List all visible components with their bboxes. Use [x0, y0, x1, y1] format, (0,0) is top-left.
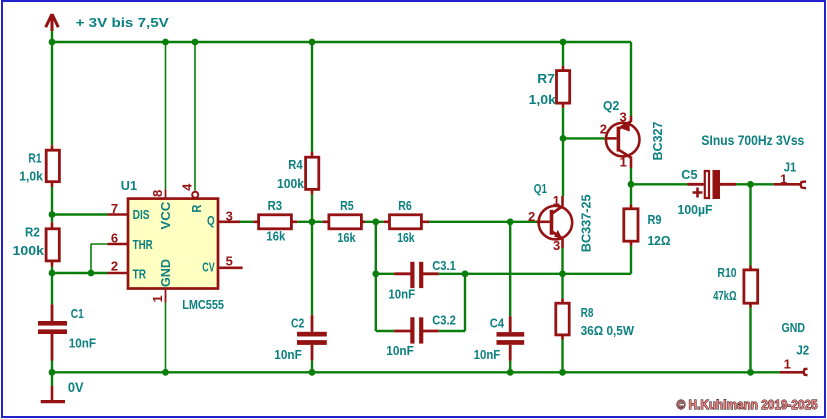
svg-text:8: 8 [150, 190, 165, 197]
svg-text:C5: C5 [681, 167, 697, 182]
svg-text:3: 3 [620, 109, 627, 124]
wire C3.1 left [376, 273, 394, 275]
wire R9 bottom [630, 246, 632, 274]
svg-text:1: 1 [150, 295, 165, 302]
wire R5R6 junction down [375, 222, 377, 331]
svg-text:DIS: DIS [133, 207, 150, 222]
svg-text:R8: R8 [581, 305, 594, 320]
node C3 right [462, 270, 469, 277]
collector pin [561, 196, 564, 206]
wire C2 to bottom rail [311, 360, 313, 372]
svg-text:16k: 16k [266, 228, 286, 243]
svg-text:VCC: VCC [158, 201, 173, 230]
svg-text:Q2: Q2 [603, 98, 619, 113]
svg-text:4: 4 [180, 183, 195, 191]
wire R10 bottom [749, 308, 751, 373]
pin 6 THR stub [108, 243, 129, 246]
wire GND pin column [165, 303, 167, 373]
svg-text:R10: R10 [717, 265, 736, 280]
svg-text:1,0k: 1,0k [529, 92, 557, 107]
svg-text:J2: J2 [796, 343, 809, 358]
node top rail R7 [560, 39, 567, 46]
svg-text:10nF: 10nF [474, 347, 501, 362]
node R3 R4 junction [309, 218, 316, 225]
pin 1 GND stub [165, 289, 167, 303]
resistor R1 [19, 145, 59, 187]
node rail U1 gnd [162, 369, 169, 376]
pin 4 R inverted stub [192, 192, 198, 198]
resistor R8 [556, 299, 635, 340]
resistor R5 [323, 198, 365, 245]
node DIS [49, 211, 56, 218]
wire C4 to bottom rail [509, 361, 511, 373]
plus sign [693, 188, 703, 198]
svg-text:2: 2 [111, 259, 118, 274]
pin 7 DIS stub [108, 213, 129, 216]
transistor Q1 BC337-25 [528, 181, 593, 253]
svg-text:TR: TR [133, 267, 147, 282]
node top rail R4 [309, 39, 316, 46]
emitter arrow [554, 230, 562, 239]
capacitor C1 [38, 304, 96, 360]
node TR left [49, 270, 56, 277]
wire GND stub below rail [51, 372, 53, 386]
svg-text:0V: 0V [68, 379, 84, 395]
svg-text:+ 3V bis 7,5V: + 3V bis 7,5V [76, 15, 170, 30]
resistor R10 [713, 265, 758, 308]
svg-text:10nF: 10nF [388, 287, 415, 302]
wire Q2 emitter [630, 168, 632, 184]
base stub [605, 137, 617, 140]
wire C3.2 left [376, 330, 394, 332]
wire bottom rail [52, 371, 780, 373]
svg-text:R1: R1 [28, 151, 41, 166]
svg-text:3: 3 [226, 208, 233, 223]
svg-text:THR: THR [133, 237, 154, 252]
svg-text:1: 1 [553, 193, 560, 208]
svg-text:R7: R7 [537, 71, 555, 86]
svg-text:R5: R5 [340, 198, 354, 213]
wire R10 top [749, 184, 751, 265]
capacitor C5 polarized [678, 167, 737, 217]
svg-text:47kΩ: 47kΩ [713, 288, 737, 303]
wire Q1 emitter [561, 248, 563, 274]
svg-text:100µF: 100µF [678, 202, 713, 217]
svg-text:10nF: 10nF [69, 335, 96, 350]
wire Q2 base row [563, 137, 605, 139]
ground symbol 0V [41, 386, 65, 402]
svg-text:2: 2 [528, 209, 535, 224]
svg-text:R3: R3 [268, 198, 283, 213]
capacitor C4 [474, 316, 525, 363]
svg-text:1: 1 [620, 155, 627, 170]
svg-text:LMC555: LMC555 [182, 297, 224, 312]
wire R2 to C1/TR [51, 267, 53, 305]
resistor R2 [13, 222, 60, 266]
wire C1 to bottom rail [51, 361, 53, 373]
wire top rail [52, 41, 631, 43]
svg-text:100k: 100k [277, 176, 305, 191]
wire THR row [91, 243, 108, 245]
pin 5 CV stub [219, 266, 243, 269]
svg-text:10nF: 10nF [274, 347, 302, 362]
resistor R9 [624, 205, 671, 249]
wire R7 top [562, 42, 564, 66]
wire R7 bottom / Q1 collector [562, 108, 564, 196]
svg-text:1,0k: 1,0k [19, 168, 43, 183]
svg-text:7: 7 [111, 201, 118, 216]
svg-text:U1: U1 [121, 178, 137, 193]
svg-text:R2: R2 [25, 224, 40, 239]
svg-text:C2: C2 [291, 316, 304, 331]
wire R9 top [630, 184, 632, 204]
base bar [550, 210, 554, 235]
wire C3.1 right [439, 273, 563, 275]
op-amp U1 LMC555 [108, 178, 243, 312]
emitter diagonal [552, 232, 563, 239]
resistor R7 [529, 66, 570, 108]
pin 2 TR stub [108, 272, 129, 275]
collector pin [630, 116, 633, 122]
node top rail supply [49, 39, 56, 46]
node THR-TR [88, 270, 95, 277]
node R7 Q2 base [560, 135, 567, 142]
wire Q2 collector column [630, 42, 632, 116]
emitter pin [630, 157, 633, 169]
wire DIS row [52, 213, 108, 215]
wire THR-TR link [90, 244, 92, 273]
connector J1 [774, 159, 806, 188]
wire C5 row left [631, 183, 688, 185]
node Q1 emitter junction [559, 270, 566, 277]
node rail C2 [309, 369, 316, 376]
svg-text:100k: 100k [13, 243, 45, 258]
capacitor C3.1 [388, 258, 455, 302]
wire R5-R6 row [365, 221, 384, 223]
svg-text:Q: Q [207, 213, 215, 228]
base stub [537, 221, 550, 224]
svg-text:Q1: Q1 [534, 181, 547, 196]
wire R-pin column [194, 42, 196, 191]
wire R9 to emitter junction [563, 273, 632, 275]
svg-text:C1: C1 [71, 306, 84, 321]
svg-text:GND: GND [158, 259, 173, 287]
svg-text:1: 1 [784, 356, 791, 371]
svg-text:10nF: 10nF [386, 343, 414, 358]
resistor R6 [384, 198, 429, 245]
svg-text:R6: R6 [398, 198, 412, 213]
svg-text:16k: 16k [337, 230, 356, 245]
wire Q output row [240, 221, 253, 223]
svg-text:BC337-25: BC337-25 [578, 194, 593, 252]
svg-text:5: 5 [226, 254, 233, 269]
node Q2 emitter junction [628, 181, 635, 188]
wire left rail top [51, 30, 53, 145]
emitter pin [561, 239, 564, 248]
svg-text:6: 6 [111, 231, 118, 246]
node rail R10 [747, 369, 754, 376]
copyright watermark [677, 397, 818, 412]
wire R8 bottom [561, 340, 563, 373]
wire R4 top column [311, 42, 313, 152]
connector J2 [780, 320, 809, 375]
svg-text:© H.Kuhlmann 2019-2025: © H.Kuhlmann 2019-2025 [677, 397, 818, 412]
collector diagonal [552, 206, 563, 213]
node top rail VCC [162, 39, 169, 46]
wire R1 to R2 [51, 187, 53, 222]
wire R6 to Q1 base [429, 221, 536, 223]
svg-text:SInus 700Hz 3Vss: SInus 700Hz 3Vss [701, 132, 804, 148]
svg-text:12Ω: 12Ω [648, 233, 671, 248]
svg-text:BC327: BC327 [650, 122, 665, 161]
emitter diagonal [619, 150, 631, 157]
capacitor C3.2 [386, 313, 456, 358]
transistor Q2 BC327 [600, 98, 665, 169]
wire R8 top [561, 274, 563, 299]
svg-text:1: 1 [780, 172, 787, 187]
svg-text:C4: C4 [490, 316, 505, 331]
wire VCC column [165, 42, 167, 189]
wire R4 bottom to C2 [311, 194, 313, 315]
pin 3 Q stub [219, 221, 240, 224]
node C3 left [372, 270, 379, 277]
node rail R8 [559, 369, 566, 376]
node C4 top [507, 218, 514, 225]
capacitor C2 [274, 315, 327, 362]
node R5 R6 junction [372, 218, 379, 225]
node rail C4 [507, 369, 514, 376]
wire C3.2 up link [464, 274, 466, 331]
node rail C1 [49, 369, 56, 376]
svg-text:C3.1: C3.1 [432, 258, 456, 273]
collector diagonal with arrow to bar [619, 122, 631, 129]
resistor R3 [253, 198, 297, 243]
wire TR row [52, 272, 108, 274]
svg-text:16k: 16k [397, 230, 415, 245]
wire C4 column [509, 222, 511, 316]
wire C3.2 right [439, 330, 465, 332]
svg-text:R4: R4 [288, 157, 303, 172]
svg-text:2: 2 [600, 122, 607, 137]
svg-text:C3.2: C3.2 [432, 313, 456, 328]
base bar [617, 127, 621, 152]
svg-text:R: R [189, 204, 204, 213]
svg-text:R9: R9 [648, 212, 662, 227]
wire R3-R5 row [297, 221, 322, 223]
supply arrow +3V [46, 14, 59, 31]
node C5 out [747, 181, 754, 188]
svg-text:GND: GND [782, 320, 806, 335]
resistor R4 [277, 152, 319, 195]
pin 8 VCC stub [165, 189, 167, 198]
svg-text:36Ω 0,5W: 36Ω 0,5W [581, 323, 635, 338]
svg-text:CV: CV [202, 260, 215, 275]
svg-text:3: 3 [553, 238, 560, 253]
wire C5 row right [736, 183, 774, 185]
node top rail Rpin [192, 39, 199, 46]
